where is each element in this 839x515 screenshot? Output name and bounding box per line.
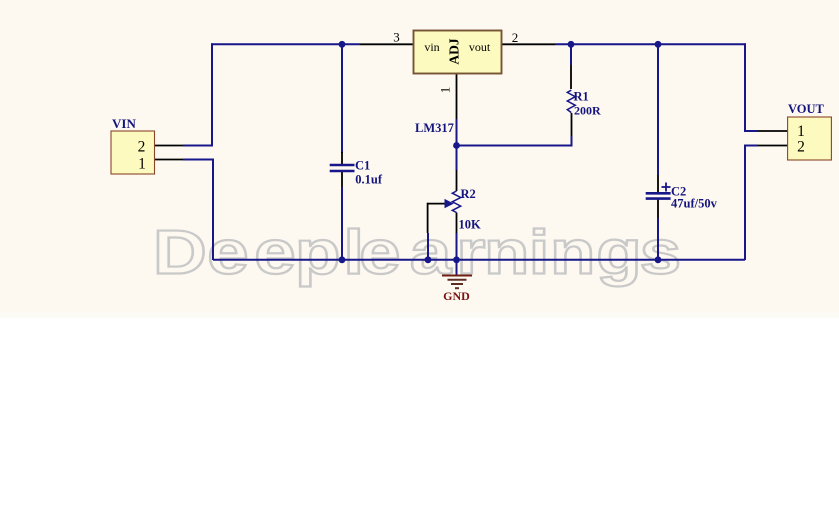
resistor R2 potentiometer zigzag: [452, 191, 460, 213]
wire R2 bottom: [456, 233, 458, 260]
ground symbol: [442, 276, 472, 289]
wire GND stub: [456, 260, 458, 275]
svg-text:Deeplearnings: Deeplearnings: [153, 217, 681, 287]
connector VOUT box: [788, 117, 832, 160]
wire R2 wiper vertical lower: [427, 233, 429, 260]
wire LM317 ADJ node vertical: [456, 119, 458, 146]
svg-text:C1: C1: [355, 159, 370, 173]
node junction top rail / C1: [339, 41, 346, 48]
node junction bottom rail / R2-GND: [453, 256, 460, 263]
R2 wiper arrow: [445, 199, 454, 208]
wire R2 top: [456, 146, 458, 171]
wire top rail right (LM317 to VOUT): [555, 43, 746, 45]
svg-text:VOUT: VOUT: [788, 102, 825, 116]
svg-text:GND: GND: [443, 289, 470, 303]
svg-text:1: 1: [438, 87, 453, 94]
svg-text:R1: R1: [574, 90, 589, 104]
C1 top lead: [341, 152, 343, 164]
VOUT pin 2 lead: [758, 145, 788, 147]
svg-text:2: 2: [797, 139, 805, 156]
svg-text:3: 3: [393, 30, 400, 45]
svg-text:10K: 10K: [459, 217, 482, 231]
node junction bottom rail / C2: [655, 256, 662, 263]
wire bottom ground rail: [213, 259, 745, 261]
R1 top lead: [570, 65, 572, 89]
svg-text:ADJ: ADJ: [447, 38, 462, 64]
wire top rail left (VIN to LM317): [211, 43, 360, 45]
C2 polarity plus sign: [662, 186, 671, 188]
svg-text:47uf/50v: 47uf/50v: [671, 197, 718, 211]
R2 top lead: [456, 170, 458, 191]
LM317 pin 2 lead: [502, 43, 556, 45]
C2 bottom lead: [657, 199, 659, 218]
R2 wiper horizontal lead: [428, 203, 446, 205]
svg-text:2: 2: [138, 138, 146, 155]
svg-text:R2: R2: [461, 187, 476, 201]
schematic cream background: [0, 0, 839, 312]
wire VIN pin 1 vertical down to bottom rail: [212, 160, 214, 261]
C2 top lead: [657, 175, 659, 193]
wire left vertical (top rail down to VIN pin 2): [211, 43, 213, 145]
wire C2 branch upper: [657, 44, 659, 175]
wire ADJ node horizontal to R1: [457, 145, 573, 147]
wire C1 branch upper: [341, 44, 343, 153]
svg-text:vout: vout: [469, 40, 491, 54]
wire R1 top: [570, 44, 572, 65]
VOUT pin 1 lead: [758, 130, 788, 132]
wire R1 bottom corner vertical: [571, 136, 573, 147]
node junction top rail / C2: [655, 41, 662, 48]
resistor R1 zigzag: [567, 90, 575, 112]
svg-text:200R: 200R: [574, 104, 601, 118]
wire right vertical upper (top rail down to VOUT pin 1): [744, 43, 746, 131]
R2 bottom lead: [456, 213, 458, 234]
node junction bottom rail / C1: [339, 256, 346, 263]
LM317 pin 3 lead: [360, 43, 414, 45]
wire C1 branch lower: [341, 187, 343, 260]
wire VOUT pin 2 horizontal: [744, 145, 758, 147]
svg-text:2: 2: [512, 30, 519, 45]
node junction ADJ: [453, 142, 460, 149]
VIN pin 2 lead: [155, 145, 183, 147]
capacitor C1 plates: [330, 164, 355, 166]
svg-text:vin: vin: [424, 40, 439, 54]
wire right vertical lower (VOUT pin 2 down to bottom rail): [744, 146, 746, 261]
R1 bottom lead: [571, 113, 573, 136]
R2 wiper vertical lead: [427, 203, 429, 233]
LM317 pin 1 lead: [456, 74, 458, 120]
wire VIN pin 2 horizontal: [183, 145, 213, 147]
node junction top rail / R1: [568, 41, 575, 48]
svg-text:1: 1: [138, 155, 146, 172]
wire VIN pin 1 horizontal: [183, 159, 214, 161]
svg-text:LM317: LM317: [415, 121, 454, 135]
C1 bottom lead: [341, 172, 343, 187]
capacitor C2 plates: [646, 192, 671, 195]
op-amp regulator U1 LM317 body: [414, 31, 502, 74]
VIN pin 1 lead: [155, 159, 183, 161]
wire VOUT pin 1 horizontal: [744, 130, 758, 132]
node junction bottom rail / wiper: [425, 256, 432, 263]
connector VIN box: [111, 131, 155, 174]
svg-text:1: 1: [797, 123, 805, 140]
svg-text:VIN: VIN: [112, 116, 136, 131]
svg-text:0.1uf: 0.1uf: [355, 173, 383, 187]
wire C2 branch lower: [657, 218, 659, 260]
